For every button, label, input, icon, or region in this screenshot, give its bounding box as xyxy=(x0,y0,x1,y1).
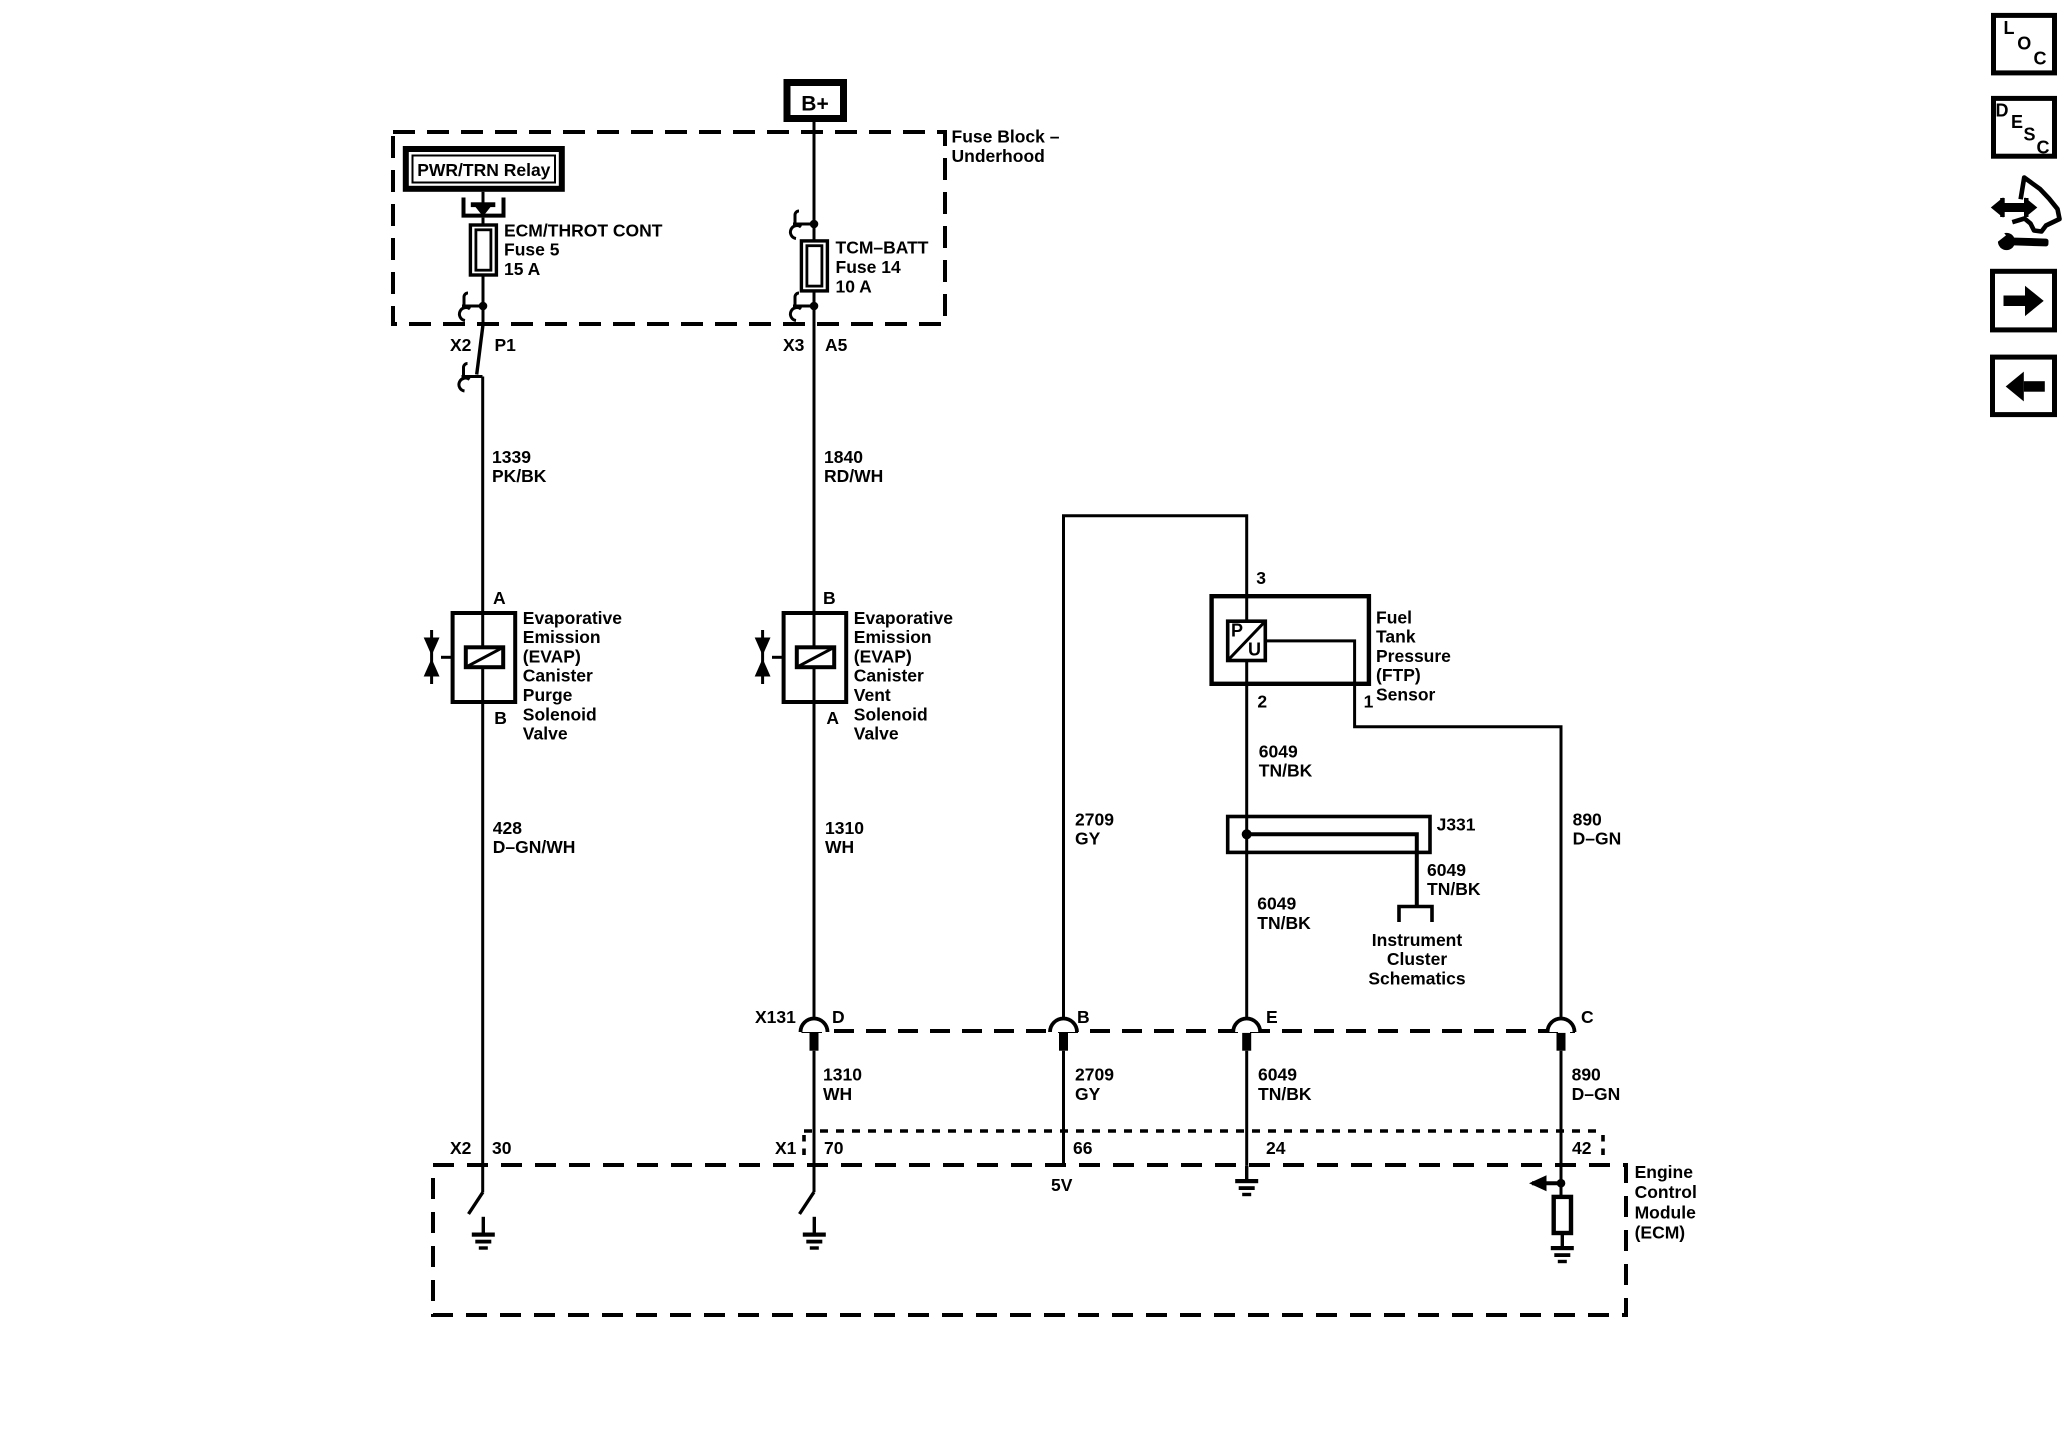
svg-text:24: 24 xyxy=(1266,1138,1286,1158)
in-line connector terminal, fuse 14 input xyxy=(790,211,814,239)
wire 1339 PK/BK continuing as 428 D-GN/WH xyxy=(481,377,484,1193)
svg-text:B: B xyxy=(1077,1007,1090,1027)
svg-text:S: S xyxy=(2024,125,2036,145)
splice junction dot J331 xyxy=(1242,829,1252,839)
svg-text:C: C xyxy=(2037,138,2050,158)
PWR/TRN Relay label box xyxy=(406,149,562,189)
svg-text:(EVAP): (EVAP) xyxy=(523,646,581,666)
splice J331 box xyxy=(1228,817,1430,853)
signal arrow at pin 42 xyxy=(1529,1175,1565,1191)
junction dot xyxy=(810,302,819,311)
fuse block underhood dashed box xyxy=(393,132,945,324)
svg-text:A: A xyxy=(826,708,839,728)
in-line connector terminal, fuse 5 output xyxy=(459,293,483,321)
connector X131 terminal D xyxy=(801,1007,845,1051)
svg-text:U: U xyxy=(1248,640,1261,660)
wire to fuse 14 xyxy=(813,224,816,241)
in-line connector terminal, fuse 14 output xyxy=(790,293,814,321)
svg-text:890: 890 xyxy=(1572,1065,1601,1085)
svg-text:30: 30 xyxy=(492,1138,512,1158)
DESC nav button xyxy=(1994,98,2055,157)
svg-text:TN/BK: TN/BK xyxy=(1259,761,1313,781)
wire fuse 14 to connector xyxy=(813,290,816,325)
svg-text:(ECM): (ECM) xyxy=(1635,1223,1686,1243)
wire 1310 WH lower xyxy=(813,1051,816,1192)
svg-text:Canister: Canister xyxy=(523,666,593,686)
connector X131 terminal C xyxy=(1548,1007,1595,1051)
off-page flag to instrument cluster xyxy=(1399,907,1432,923)
wire fuse 5 to connector xyxy=(482,275,485,325)
svg-text:890: 890 xyxy=(1573,809,1602,829)
wire B+ to fuse 14 xyxy=(813,122,816,225)
wire contact to fuse 5 xyxy=(482,218,485,225)
svg-text:A5: A5 xyxy=(825,335,848,355)
svg-text:Fuse Block –: Fuse Block – xyxy=(952,127,1060,147)
previous page nav button xyxy=(1993,357,2055,415)
wire 2709 GY lower xyxy=(1062,1051,1065,1166)
svg-text:428: 428 xyxy=(493,818,522,838)
svg-text:Sensor: Sensor xyxy=(1376,685,1436,705)
svg-text:Fuse 14: Fuse 14 xyxy=(836,257,901,277)
svg-text:6049: 6049 xyxy=(1427,860,1466,880)
svg-text:(FTP): (FTP) xyxy=(1376,665,1421,685)
pull-up resistor in ECM xyxy=(1554,1197,1571,1233)
svg-text:Solenoid: Solenoid xyxy=(854,704,928,724)
svg-text:6049: 6049 xyxy=(1257,894,1296,914)
wire 1840 RD/WH continuing as 1310 WH xyxy=(813,325,816,1019)
svg-text:X131: X131 xyxy=(755,1007,796,1027)
svg-text:Tank: Tank xyxy=(1376,627,1416,647)
splice branch wire to instrument cluster xyxy=(1247,834,1417,906)
wire through FTP sensor xyxy=(1245,596,1248,684)
svg-text:TN/BK: TN/BK xyxy=(1258,1084,1312,1104)
svg-text:X2: X2 xyxy=(450,335,472,355)
fuse F14 TCM-BATT 10A xyxy=(801,241,827,291)
svg-text:1310: 1310 xyxy=(825,818,864,838)
connector X131 terminal B xyxy=(1050,1007,1090,1051)
svg-text:Control: Control xyxy=(1635,1182,1697,1202)
svg-text:(EVAP): (EVAP) xyxy=(854,646,912,666)
svg-text:PWR/TRN Relay: PWR/TRN Relay xyxy=(417,160,550,180)
svg-text:E: E xyxy=(1266,1007,1278,1027)
svg-text:Module: Module xyxy=(1635,1202,1697,1222)
EVAP canister vent solenoid valve xyxy=(755,613,846,702)
svg-text:6049: 6049 xyxy=(1258,1065,1297,1085)
svg-text:Canister: Canister xyxy=(854,666,924,686)
diagnostic wrench nav icon xyxy=(1990,178,2059,251)
wire 6049 TN/BK lower xyxy=(1245,1051,1248,1166)
svg-text:D: D xyxy=(832,1007,845,1027)
svg-text:42: 42 xyxy=(1572,1138,1592,1158)
svg-text:A: A xyxy=(493,588,506,608)
wire 890 D-GN lower xyxy=(1560,1051,1563,1197)
svg-text:Valve: Valve xyxy=(523,724,568,744)
svg-text:1840: 1840 xyxy=(824,447,863,467)
svg-text:B: B xyxy=(494,708,507,728)
svg-text:PK/BK: PK/BK xyxy=(492,466,547,486)
ground, ECM pin 30 xyxy=(472,1233,495,1250)
svg-text:Evaporative: Evaporative xyxy=(854,608,953,628)
pin 70 jog inside ECM xyxy=(800,1192,815,1214)
svg-text:TCM–BATT: TCM–BATT xyxy=(836,238,929,258)
svg-text:P1: P1 xyxy=(495,335,517,355)
svg-text:1339: 1339 xyxy=(492,447,531,467)
pin 30 jog inside ECM xyxy=(469,1192,484,1214)
svg-text:RD/WH: RD/WH xyxy=(824,466,883,486)
connector X131 terminal E xyxy=(1233,1007,1277,1051)
svg-text:2709: 2709 xyxy=(1075,1065,1114,1085)
dash fragment at D arc xyxy=(802,1029,812,1033)
svg-text:B+: B+ xyxy=(801,92,828,115)
svg-text:Valve: Valve xyxy=(854,724,899,744)
svg-text:D–GN: D–GN xyxy=(1572,1084,1621,1104)
svg-text:Instrument: Instrument xyxy=(1372,930,1463,950)
ground stub pin 42 resistor xyxy=(1561,1233,1564,1246)
svg-text:Emission: Emission xyxy=(523,627,601,647)
connector X131 dashed line xyxy=(802,1029,1575,1033)
ground stub pin 30 xyxy=(482,1217,485,1233)
svg-text:1: 1 xyxy=(1364,691,1374,711)
svg-text:O: O xyxy=(2017,33,2031,53)
svg-text:X3: X3 xyxy=(783,335,805,355)
ECM connector dotted jog left xyxy=(802,1135,806,1158)
svg-text:L: L xyxy=(2004,18,2015,38)
ECM connector dotted jog right xyxy=(1601,1135,1605,1158)
svg-text:1310: 1310 xyxy=(823,1065,862,1085)
svg-text:C: C xyxy=(1581,1007,1594,1027)
svg-text:66: 66 xyxy=(1073,1138,1093,1158)
svg-text:5V: 5V xyxy=(1051,1175,1073,1195)
svg-text:Evaporative: Evaporative xyxy=(523,608,622,628)
svg-text:GY: GY xyxy=(1075,829,1101,849)
svg-text:GY: GY xyxy=(1075,1084,1101,1104)
svg-text:TN/BK: TN/BK xyxy=(1257,913,1311,933)
svg-text:C: C xyxy=(2034,48,2047,68)
svg-text:Fuel: Fuel xyxy=(1376,607,1412,627)
fuse F5 ECM/THROT CONT 15A xyxy=(470,225,496,275)
FTP sensor pin 1 internal wire xyxy=(1265,641,1561,1019)
svg-text:3: 3 xyxy=(1256,568,1266,588)
ECM connector X1 dotted line xyxy=(804,1129,1603,1133)
svg-text:70: 70 xyxy=(824,1138,844,1158)
svg-text:WH: WH xyxy=(825,837,854,857)
wire 5V reference branch (2709 GY top run) xyxy=(1064,516,1247,1019)
svg-text:Schematics: Schematics xyxy=(1368,968,1466,988)
svg-text:D–GN: D–GN xyxy=(1573,829,1622,849)
engine control module dashed box xyxy=(433,1165,1626,1315)
wire jog below X2 P1 xyxy=(477,325,483,375)
EVAP canister purge solenoid valve xyxy=(424,613,516,702)
in-line connector terminal X2 P1 lower half xyxy=(459,364,483,392)
svg-text:15 A: 15 A xyxy=(504,259,541,279)
relay contact arrow and terminal cup xyxy=(464,198,504,217)
svg-text:E: E xyxy=(2011,112,2023,132)
svg-text:Purge: Purge xyxy=(523,685,573,705)
svg-text:Vent: Vent xyxy=(854,685,891,705)
svg-text:TN/BK: TN/BK xyxy=(1427,879,1481,899)
svg-text:X1: X1 xyxy=(775,1138,797,1158)
svg-text:P: P xyxy=(1231,621,1243,641)
ground stub pin 70 xyxy=(813,1217,816,1233)
svg-text:Underhood: Underhood xyxy=(952,146,1045,166)
LOC nav button xyxy=(1994,15,2055,73)
svg-text:B: B xyxy=(823,588,836,608)
svg-text:J331: J331 xyxy=(1437,815,1476,835)
svg-text:2: 2 xyxy=(1257,691,1267,711)
svg-text:Engine: Engine xyxy=(1635,1162,1694,1182)
svg-text:Pressure: Pressure xyxy=(1376,646,1451,666)
ground, ECM pin 42 pull-up xyxy=(1551,1246,1574,1263)
svg-text:Cluster: Cluster xyxy=(1387,949,1447,969)
next page nav button xyxy=(1993,271,2055,330)
ground stub pin 24 xyxy=(1245,1166,1248,1179)
wire relay output xyxy=(482,192,485,203)
svg-text:Fuse 5: Fuse 5 xyxy=(504,240,560,260)
junction dot xyxy=(810,220,819,229)
FTP P/U transducer square xyxy=(1228,621,1266,661)
ground, ECM pin 24 xyxy=(1235,1179,1258,1196)
svg-text:2709: 2709 xyxy=(1075,809,1114,829)
svg-text:WH: WH xyxy=(823,1084,852,1104)
svg-text:Emission: Emission xyxy=(854,627,932,647)
svg-text:10 A: 10 A xyxy=(836,276,873,296)
fuel tank pressure sensor box xyxy=(1212,596,1369,684)
svg-text:Solenoid: Solenoid xyxy=(523,704,597,724)
svg-text:D–GN/WH: D–GN/WH xyxy=(493,837,576,857)
B+ battery feed symbol xyxy=(787,83,844,119)
svg-text:X2: X2 xyxy=(450,1138,472,1158)
wire 6049 TN/BK below FTP xyxy=(1245,684,1248,1019)
svg-text:D: D xyxy=(1996,101,2009,121)
svg-text:6049: 6049 xyxy=(1259,741,1298,761)
svg-text:ECM/THROT CONT: ECM/THROT CONT xyxy=(504,220,663,240)
ground, ECM pin 70 xyxy=(803,1233,826,1250)
junction dot xyxy=(479,302,488,311)
